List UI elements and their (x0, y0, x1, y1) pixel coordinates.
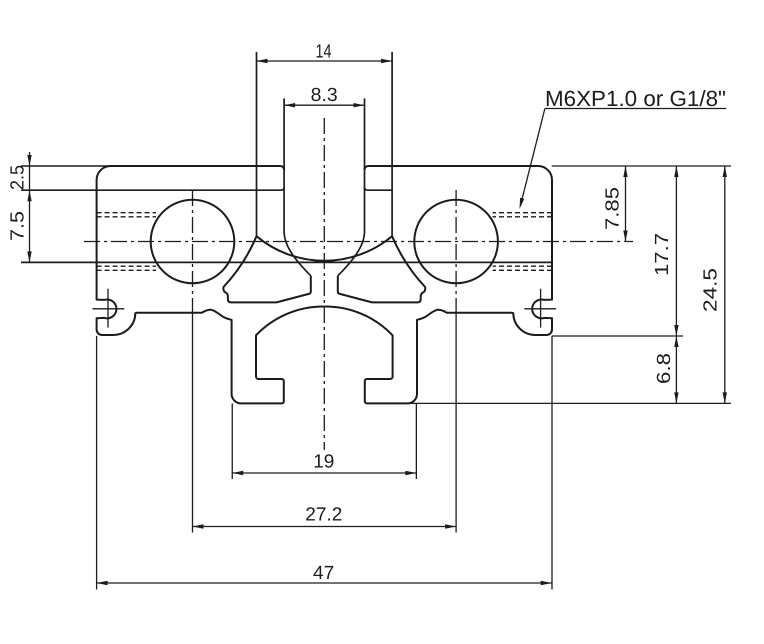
profile cross-section left half (mirrored below for right half) (93, 52, 325, 590)
main vertical centerline (323, 118, 325, 450)
svg-text:27.2: 27.2 (305, 505, 342, 526)
outer outline: top face, left edge, sensor notch, wing underside, lower tongue, T-hook, center arch (97, 166, 325, 403)
tongue bottom extension line (24.5/6.8 dims) (409, 402, 731, 404)
dimension line 27.2 (193, 526, 457, 528)
arrow 17.7 top (674, 166, 678, 177)
arrow 19 left (232, 471, 243, 475)
svg-text:14: 14 (316, 42, 332, 63)
sensor-groove screw centermarks (107, 289, 109, 328)
dome arc of upper center cavity (257, 236, 325, 261)
svg-text:17.7: 17.7 (652, 233, 673, 276)
extension line for 47 dim (96, 336, 98, 590)
arrow 8.3 left (284, 103, 295, 107)
arrow 7.85 bottom (623, 231, 627, 242)
dimension line 17.7/6.8 (675, 166, 677, 403)
dimension line 47 (97, 582, 552, 584)
internal edge H3 (7.5 below step) (21, 261, 552, 263)
arrow 24.5 bottom (723, 392, 727, 403)
svg-text:M6XP1.0 or G1/8": M6XP1.0 or G1/8" (545, 86, 726, 111)
arrow 6.8 bottom (674, 392, 678, 403)
arrow 27.2 left (193, 524, 204, 528)
hidden thread lines (side port) (97, 213, 156, 271)
arrow 47 left (97, 581, 108, 585)
arrow 27.2 right (445, 524, 456, 528)
top face extension line right (7.85/17.7/24.5 dims) (552, 165, 731, 167)
leader underline of M6XP1.0 label (545, 108, 726, 110)
svg-text:7.5: 7.5 (8, 211, 29, 241)
arrow 6.8 top (674, 336, 678, 347)
svg-text:7.85: 7.85 (603, 187, 624, 230)
arrow 47 right (541, 581, 552, 585)
leader line to thread (520, 109, 545, 207)
inner cavity wall V1 (also 14-dim extension) (256, 52, 258, 236)
arrow 2.5 top (27, 155, 31, 166)
arrow 7.5 bottom (27, 251, 31, 262)
horizontal centerline through both bores (84, 241, 633, 243)
dimension line 2.5/7.5 stack (29, 152, 31, 262)
top face extension line left (2.5 dim) (21, 165, 110, 167)
bore vertical centerline (192, 190, 194, 300)
svg-text:47: 47 (313, 563, 334, 584)
dimension line 8.3 (284, 104, 364, 106)
svg-text:2.5: 2.5 (8, 165, 29, 190)
arrow 7.85 top (623, 166, 627, 177)
fan arc and side pocket outline with neck wall (223, 236, 310, 302)
dimension line 24.5 (724, 166, 726, 403)
mirrored right half of profile (324, 52, 556, 590)
arrow 14 left (257, 59, 268, 63)
arrow 17.7 bottom (674, 325, 678, 336)
arrow 2.5/7.5 shared (27, 190, 31, 201)
arrow 24.5 top (723, 166, 727, 177)
arrow 19 right (405, 471, 416, 475)
leader arrowhead (520, 198, 525, 209)
dimension line 7.85 (625, 166, 627, 242)
svg-text:19: 19 (313, 452, 334, 473)
slot step wall with web arc to neck (also 8.3-dim extension) (284, 98, 311, 275)
extension line for 19 dim (231, 403, 233, 479)
step line H2 left (2.5 below top) (21, 187, 284, 190)
svg-text:24.5: 24.5 (701, 268, 722, 312)
wing underside extension line (17.7/6.8 dims) (552, 335, 683, 337)
arrow 8.3 right (354, 103, 365, 107)
step line H2 right short (365, 187, 393, 190)
extension line for 27.2 dim (192, 300, 194, 533)
arrow 14 right (381, 59, 392, 63)
svg-text:6.8: 6.8 (654, 353, 675, 384)
bore circle (151, 200, 235, 284)
dimension line 19 (232, 472, 416, 474)
dimension line 14 (257, 60, 393, 62)
svg-text:8.3: 8.3 (311, 85, 338, 106)
